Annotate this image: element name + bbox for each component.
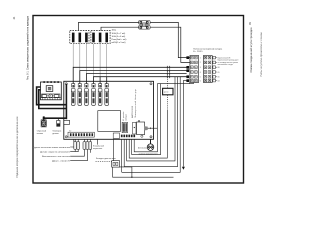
svg-text:1: 1 (200, 57, 201, 59)
svg-text:Датчик скорости автомобиля: Датчик скорости автомобиля (40, 152, 70, 154)
svg-text:Издание второе переработанное: Издание второе переработанное и дополнен… (16, 116, 19, 178)
svg-text:Рис. 9-1. Схема электрических: Рис. 9-1. Схема электрических соединений… (26, 15, 30, 80)
svg-text:Колодка диагностики: Колодка диагностики (96, 158, 116, 160)
svg-text:Штепсель: Штепсель (138, 148, 147, 150)
svg-text:датчик: датчик (52, 133, 58, 135)
svg-text:Выключатель стоп-сигнала: Выключатель стоп-сигнала (42, 156, 71, 158)
svg-text:2: 2 (200, 62, 201, 64)
svg-text:06: 06 (218, 77, 220, 79)
svg-text:05: 05 (218, 72, 220, 74)
svg-text:X2: X2 (69, 131, 71, 133)
svg-text:колодка: колодка (126, 113, 128, 121)
svg-text:автомобиля сзади: автомобиля сзади (218, 64, 233, 66)
svg-text:6: 6 (200, 80, 201, 82)
svg-text:В + 21015: В + 21015 (193, 51, 203, 53)
svg-text:Электронный блок упр: Электронный блок упр (134, 88, 137, 118)
svg-text:Клавишный: Клавишный (93, 144, 104, 147)
svg-text:Группа контактов замка зажиган: Группа контактов замка зажигания (33, 147, 70, 149)
svg-text:10 A (5 x 7 мб): 10 A (5 x 7 мб) (112, 32, 126, 35)
svg-text:21: 21 (12, 16, 16, 19)
svg-text:100a: 100a (112, 29, 117, 31)
svg-text:реле: реле (164, 92, 169, 94)
svg-text:розетки прикуривателя: розетки прикуривателя (139, 153, 158, 155)
svg-text:Диагн. линия K: Диагн. линия K (52, 161, 71, 163)
svg-text:переключ.: переключ. (93, 148, 103, 150)
svg-text:09: 09 (248, 22, 252, 25)
svg-text:Обратный: Обратный (37, 130, 46, 133)
svg-text:мб50(5 x 5 мб): мб50(5 x 5 мб) (112, 42, 126, 44)
svg-text:3: 3 (200, 67, 201, 69)
svg-text:Схема соединений жгута проводо: Схема соединений жгута проводов (249, 27, 253, 73)
svg-text:Полюсная (штыревая) колодка: Полюсная (штыревая) колодка (193, 48, 223, 50)
svg-text:Типы жгутов проводов и схемы: Типы жгутов проводов и схемы (260, 32, 263, 77)
svg-text:08: 08 (218, 67, 220, 69)
svg-text:04: 04 (218, 80, 220, 82)
svg-text:5: 5 (200, 76, 201, 78)
svg-text:Реле(5мб + мб): Реле(5мб + мб) (112, 39, 127, 41)
svg-text:клапан: клапан (37, 133, 43, 135)
svg-text:10 A (5 x 6 мб): 10 A (5 x 6 мб) (112, 35, 126, 38)
svg-text:4: 4 (200, 72, 201, 74)
svg-text:АКПП 21015: АКПП 21015 (131, 105, 134, 118)
